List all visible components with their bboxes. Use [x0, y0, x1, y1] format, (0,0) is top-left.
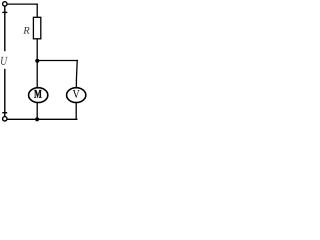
- wire left upper segment: [4, 4, 6, 51]
- wire bottom horizontal: [5, 118, 78, 120]
- label R: [23, 27, 29, 34]
- tick mark top-left lead: [2, 11, 7, 13]
- terminal bottom-left: [3, 117, 7, 121]
- wire top horizontal from terminal to resistor branch: [5, 3, 38, 5]
- label V: [73, 90, 80, 98]
- node junction bottom (dot): [35, 117, 39, 121]
- wire junction horizontal to voltmeter branch: [37, 60, 78, 62]
- terminal top-left: [3, 2, 7, 6]
- resistor R: [33, 17, 40, 39]
- tick mark bottom-left lead: [2, 112, 7, 114]
- wire M bottom to bottom rail: [36, 95, 38, 119]
- label M: [34, 90, 41, 98]
- voltmeter V: [67, 88, 86, 103]
- wire resistor bottom to junction and down to motor: [36, 39, 38, 95]
- wire left lower segment: [4, 69, 6, 119]
- node junction top (dot): [35, 59, 39, 63]
- wire vertical drop into resistor top: [36, 4, 38, 18]
- wire voltmeter branch vertical down to V: [75, 60, 78, 95]
- label U: [1, 57, 8, 65]
- motor meter M: [29, 88, 48, 103]
- wire V bottom to bottom rail: [75, 95, 77, 120]
